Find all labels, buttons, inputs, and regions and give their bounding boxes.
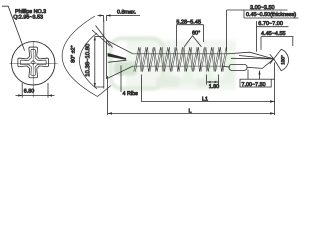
- point web line 2: [231, 57, 274, 60]
- svg-text:1.80: 1.80: [209, 84, 220, 90]
- head front view circle: [12, 42, 55, 85]
- thread zigzag B: [135, 47, 227, 71]
- dim 0.8max: [104, 16, 107, 23]
- point web line 1: [239, 56, 274, 59]
- tip extension line: [274, 63, 276, 116]
- watermark logo: [111, 39, 237, 91]
- thread root bottom line: [133, 65, 223, 67]
- rib line lower: [108, 60, 127, 62]
- thread root top line: [133, 53, 227, 55]
- shank bottom short: [223, 65, 230, 68]
- dim 5.28~5.45: [176, 24, 203, 26]
- svg-text:0.45~0.50(thickness): 0.45~0.50(thickness): [246, 12, 296, 18]
- svg-text:L1: L1: [202, 96, 208, 102]
- svg-text:6.80: 6.80: [24, 89, 35, 95]
- dim 7.00~7.50 box: [240, 79, 271, 87]
- svg-text:4 Ribs: 4 Ribs: [123, 91, 139, 97]
- flute pill: [229, 64, 247, 70]
- centerline vertical: [32, 42, 34, 98]
- thread angle V: [184, 36, 201, 47]
- svg-text:60°: 60°: [192, 31, 200, 37]
- recess center mark: [31, 60, 35, 64]
- head side view face: [103, 20, 105, 89]
- dim 1.80 line: [207, 81, 219, 83]
- point top taper: [227, 52, 274, 59]
- svg-text:7.00~7.50: 7.00~7.50: [242, 82, 266, 88]
- head cone bottom edge: [107, 66, 133, 79]
- dim 1.80 extension lines: [207, 75, 219, 85]
- 4 Ribs leader: [120, 66, 122, 93]
- dim 80deg outer arc: [62, 16, 97, 97]
- dim 6.80 arrows: [18, 94, 52, 96]
- rib wedge upper: [108, 53, 126, 59]
- svg-text:80° ±2°: 80° ±2°: [71, 45, 77, 62]
- cone edge extension tick: [92, 26, 113, 97]
- phillips recess outer cross: [18, 47, 49, 78]
- point bottom edge: [247, 59, 274, 69]
- point angle fan: [274, 49, 289, 70]
- dim 6.80 line: [16, 95, 55, 97]
- dim 6.80 extension lines: [22, 83, 48, 98]
- centerline horizontal: [10, 62, 58, 64]
- dim L line: [108, 112, 275, 114]
- svg-text:L: L: [189, 109, 192, 115]
- svg-text:5.28~5.45: 5.28~5.45: [176, 19, 201, 25]
- svg-text:Q:2.95~3.53: Q:2.95~3.53: [13, 15, 43, 21]
- svg-text:0.8max.: 0.8max.: [117, 9, 136, 15]
- head cone top edge: [107, 40, 133, 54]
- dim 80deg inner arc: [80, 33, 98, 89]
- phillips recess inner cross: [20, 50, 46, 76]
- svg-text:10.38~10.80: 10.38~10.80: [85, 43, 92, 77]
- dim L1: [142, 75, 275, 102]
- dim L extension: [107, 76, 109, 115]
- thread zigzag A: [134, 47, 227, 71]
- leader line phillips: [2, 6, 25, 50]
- dim 10.38~10.80 line: [94, 36, 96, 87]
- svg-text:130°: 130°: [280, 55, 285, 65]
